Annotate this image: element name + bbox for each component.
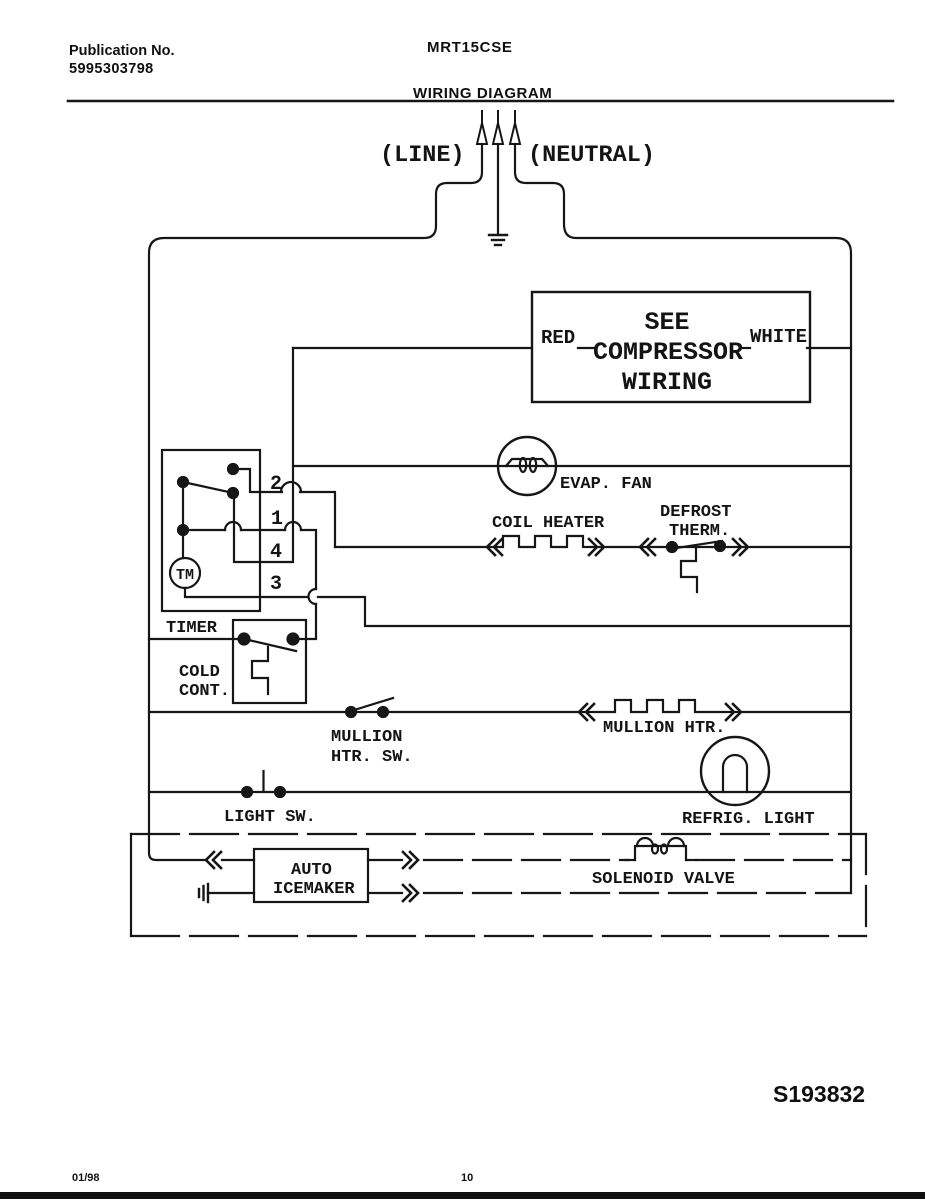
header rule line [68, 100, 893, 103]
svg-text:COLD: COLD [179, 663, 220, 682]
svg-text:REFRIG. LIGHT: REFRIG. LIGHT [682, 810, 815, 829]
icemaker dashed enclosure left [130, 834, 132, 936]
label COLD CONT. [179, 663, 230, 701]
svg-text:MRT15CSE: MRT15CSE [427, 39, 513, 56]
mullion heater switch left dot [346, 707, 356, 717]
icemaker ground symbol [199, 884, 208, 902]
connector chevrons after defrost thermostat [733, 539, 748, 555]
dashed wire line 1 left of solenoid valve [424, 859, 628, 861]
cold control right contact dot [288, 634, 299, 645]
auto icemaker box [254, 849, 368, 902]
timer motor TM circle [170, 558, 200, 588]
svg-text:HTR. SW.: HTR. SW. [331, 748, 413, 767]
label DEFROST THERM. [660, 503, 731, 541]
header publication number text [69, 43, 175, 77]
wire hop notch around timer motor lead [309, 589, 317, 604]
plug prong arrow middle [493, 111, 503, 144]
connector chevrons before coil heater [487, 539, 502, 555]
wire hop arc over contact C wire [225, 522, 241, 530]
wire icemaker box to output chevrons line 2 [368, 892, 402, 894]
wire terminal 2 to coil heater row [300, 492, 335, 547]
wire terminal 1 to cold control [301, 530, 316, 589]
svg-text:ICEMAKER: ICEMAKER [273, 880, 355, 899]
wire evaporator fan row [293, 465, 851, 467]
refrigerator light filament [723, 755, 747, 792]
plug prong arrow right [510, 111, 520, 144]
wire ground to icemaker box [208, 892, 254, 894]
connector chevrons before mullion heater [579, 704, 594, 720]
wire main feed vertical to timer contact [234, 348, 293, 562]
cold control actuator zigzag [252, 647, 268, 694]
connector chevrons after coil heater [589, 539, 604, 555]
wire line 1 stub into solenoid valve [626, 859, 635, 861]
label AUTO ICEMAKER [273, 861, 355, 899]
svg-text:COMPRESSOR: COMPRESSOR [593, 338, 743, 367]
wire timer terminal 1 row from dot D [183, 529, 225, 531]
connector chevrons icemaker output line 2 [403, 885, 418, 901]
icemaker dashed enclosure bottom [131, 935, 866, 937]
wire icemaker box to output chevrons line 1 [368, 859, 402, 861]
svg-text:RED: RED [541, 327, 575, 349]
wire terminal 3 to neutral side [318, 597, 851, 626]
cold control switch blade [244, 639, 296, 651]
timer common post wire [182, 482, 184, 558]
refrigerator light bulb circle [701, 737, 769, 805]
wire refrigerator light row [149, 791, 851, 793]
icemaker dashed enclosure top [131, 833, 866, 835]
wire line-side from left prong into main loop left edge [149, 144, 482, 860]
timer contact dot C [228, 488, 238, 498]
svg-text:10: 10 [461, 1172, 473, 1184]
icemaker dashed enclosure right [865, 834, 867, 936]
timer contact dot B [178, 477, 188, 487]
compressor box text SEE COMPRESSOR WIRING [593, 308, 743, 397]
wire timer terminal 2 from dot A [233, 469, 282, 492]
wire stub inside compressor box [578, 347, 594, 349]
evap fan winding symbol [506, 458, 548, 472]
footer black bar [0, 1192, 925, 1199]
svg-text:WIRING: WIRING [622, 368, 712, 397]
svg-text:SEE: SEE [644, 308, 689, 337]
svg-text:LIGHT SW.: LIGHT SW. [224, 808, 316, 827]
svg-text:01/98: 01/98 [72, 1172, 100, 1184]
wire down to cold control right contact [298, 604, 316, 639]
wire mullion heater row [149, 700, 851, 712]
light switch plunger [262, 771, 264, 792]
solenoid valve coil [635, 838, 686, 860]
timer contact dot A [228, 464, 238, 474]
plug prong arrow left [477, 111, 487, 144]
svg-text:MULLION HTR.: MULLION HTR. [603, 719, 725, 738]
svg-text:WIRING DIAGRAM: WIRING DIAGRAM [413, 85, 552, 102]
label MULLION HTR. SW. [331, 728, 413, 767]
ground symbol [489, 235, 507, 245]
compressor wiring box [532, 292, 810, 402]
svg-text:(LINE): (LINE) [380, 142, 465, 169]
wire hop arc over feed line row 1 [285, 522, 301, 530]
defrost thermostat blade [670, 541, 722, 549]
light switch right dot [275, 787, 285, 797]
svg-text:5995303798: 5995303798 [69, 61, 154, 77]
wire neutral-side from right prong into main loop right edge [515, 144, 851, 893]
svg-text:Publication No.: Publication No. [69, 43, 175, 59]
evap fan motor circle [498, 437, 556, 495]
svg-text:DEFROST: DEFROST [660, 503, 731, 522]
wire red lead to compressor box [293, 347, 532, 349]
timer contact dot D [178, 525, 188, 535]
wire defrost heater row [335, 536, 851, 547]
svg-text:S193832: S193832 [773, 1081, 865, 1107]
cold control box [233, 620, 306, 703]
svg-text:EVAP. FAN: EVAP. FAN [560, 475, 652, 494]
connector chevrons after mullion heater [726, 704, 741, 720]
dashed wire line 1 right of solenoid valve [696, 859, 851, 861]
timer switch blade B to C [183, 482, 233, 493]
connector chevrons icemaker output line 1 [403, 852, 418, 868]
cold control left contact dot [239, 634, 250, 645]
light switch left dot [242, 787, 252, 797]
wire timer motor lead terminal 3 [185, 588, 307, 597]
svg-text:MULLION: MULLION [331, 728, 402, 747]
svg-text:2: 2 [270, 473, 282, 496]
wire hop arc over feed line row 2 [281, 482, 301, 492]
defrost thermostat sensing bracket [681, 546, 697, 592]
svg-text:4: 4 [270, 541, 282, 564]
wire chevron to icemaker box [222, 859, 254, 861]
svg-text:SOLENOID VALVE: SOLENOID VALVE [592, 870, 735, 889]
wire left edge to cold control [149, 638, 244, 640]
dashed wire line 2 to right edge [424, 892, 851, 894]
svg-text:(NEUTRAL): (NEUTRAL) [528, 142, 655, 169]
svg-text:3: 3 [270, 573, 282, 596]
wire row 1 middle segment [241, 529, 285, 531]
wire white lead from compressor box to right edge [807, 347, 851, 349]
timer box [162, 450, 260, 611]
defrost thermostat left contact dot [667, 542, 677, 552]
wire line 1 stub after solenoid valve [686, 859, 696, 861]
svg-text:TIMER: TIMER [166, 619, 218, 638]
mullion heater switch blade [351, 698, 393, 711]
svg-text:COIL HEATER: COIL HEATER [492, 514, 605, 533]
svg-text:AUTO: AUTO [291, 861, 332, 880]
wire stub before WHITE [743, 347, 750, 349]
svg-text:WHITE: WHITE [750, 326, 807, 348]
wire ground stem from middle prong [497, 144, 499, 233]
svg-text:1: 1 [271, 508, 283, 531]
mullion heater switch right dot [378, 707, 388, 717]
connector chevrons icemaker line input [206, 852, 221, 868]
defrost thermostat right contact dot [715, 541, 725, 551]
connector chevrons before defrost thermostat [640, 539, 655, 555]
svg-text:CONT.: CONT. [179, 682, 230, 701]
svg-text:THERM.: THERM. [669, 522, 730, 541]
svg-text:TM: TM [176, 567, 194, 584]
